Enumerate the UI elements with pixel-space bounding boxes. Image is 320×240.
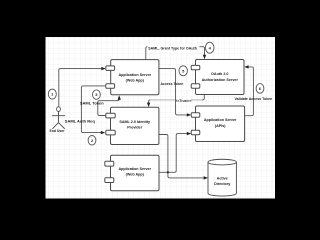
svg-text:Authorization Server: Authorization Server — [202, 78, 239, 82]
svg-text:Directory: Directory — [214, 182, 231, 186]
svg-text:SAML Auth Req: SAML Auth Req — [65, 119, 96, 124]
svg-text:Provider: Provider — [127, 126, 143, 130]
svg-text:<<Trust>>: <<Trust>> — [176, 99, 192, 103]
svg-text:Validate Access Token: Validate Access Token — [234, 97, 272, 101]
svg-text:SAML, Grant Type for OAuth: SAML, Grant Type for OAuth — [148, 46, 197, 50]
svg-text:SAML Token: SAML Token — [80, 100, 104, 105]
svg-text:Application Server: Application Server — [118, 167, 151, 171]
svg-text:End User: End User — [49, 129, 65, 133]
svg-text:(Web App): (Web App) — [126, 173, 145, 177]
svg-text:(APIs): (APIs) — [215, 124, 226, 128]
svg-text:Application Server: Application Server — [204, 118, 237, 122]
svg-text:Active: Active — [217, 176, 228, 180]
svg-text:OAuth 2.0: OAuth 2.0 — [211, 72, 228, 76]
svg-text:SAML 2.0 Identity: SAML 2.0 Identity — [119, 120, 151, 124]
svg-text:Access Token: Access Token — [160, 82, 183, 86]
svg-text:(Web App): (Web App) — [126, 78, 145, 82]
svg-text:Application Server: Application Server — [119, 73, 152, 77]
